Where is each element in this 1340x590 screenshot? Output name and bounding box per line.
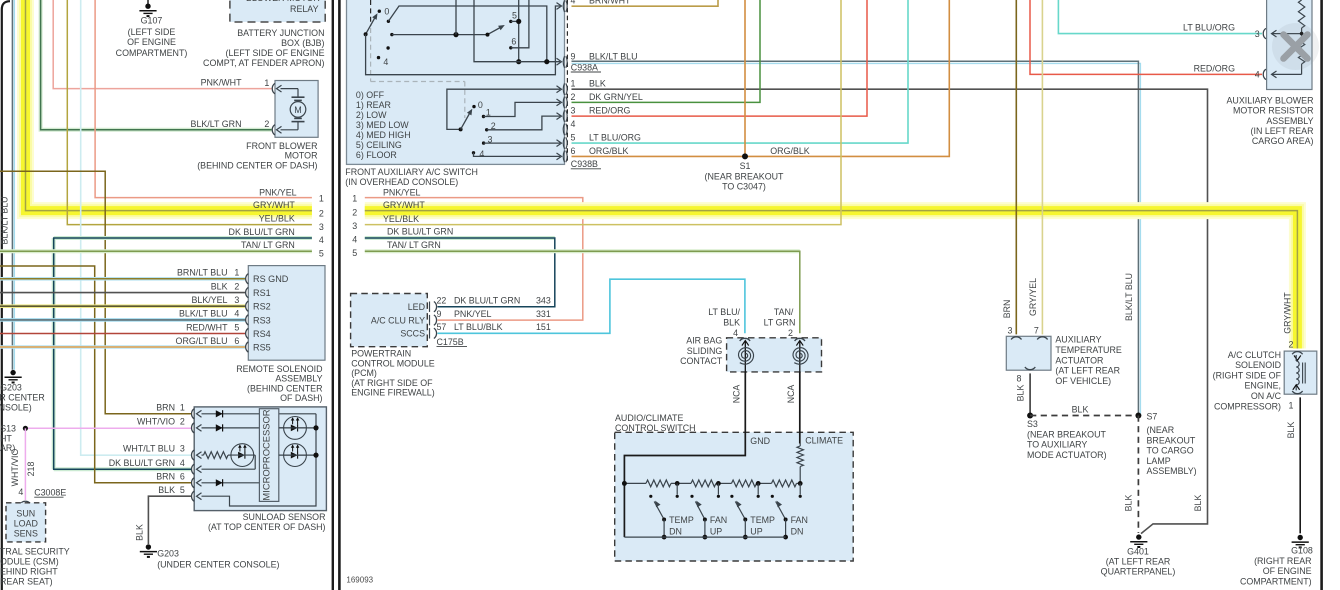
- position 5: [509, 20, 512, 23]
- svg-text:RED/ORG: RED/ORG: [1194, 63, 1236, 73]
- remote solenoid pin 6 ORG/LT BLU: [246, 342, 249, 352]
- svg-text:2: 2: [319, 208, 324, 218]
- svg-text:CONTROL SWITCH: CONTROL SWITCH: [615, 423, 696, 433]
- node S3: [1027, 413, 1033, 419]
- svg-text:BLK/LT GRN: BLK/LT GRN: [191, 119, 242, 129]
- microprocessor output row to LED lower: [279, 454, 316, 456]
- wire pos1 to pin 2: [484, 102, 561, 116]
- svg-text:343: 343: [536, 296, 551, 306]
- svg-text:UP: UP: [710, 527, 722, 537]
- lower switch arm: [459, 127, 463, 131]
- node S7: [1135, 413, 1141, 419]
- wire pos3 to pin 5: [484, 142, 560, 144]
- right page border: [338, 0, 341, 590]
- svg-text:4: 4: [352, 235, 357, 245]
- svg-text:SLIDING: SLIDING: [687, 346, 723, 356]
- svg-text:BATTERY JUNCTION: BATTERY JUNCTION: [237, 28, 324, 38]
- svg-text:3: 3: [319, 222, 324, 232]
- svg-text:RED/WHT: RED/WHT: [186, 322, 228, 332]
- svg-text:1) REAR: 1) REAR: [356, 100, 391, 110]
- svg-text:PNK/YEL: PNK/YEL: [454, 309, 492, 319]
- svg-text:4: 4: [479, 149, 484, 159]
- svg-text:BRN: BRN: [1002, 300, 1012, 319]
- line C to pin 9: [474, 0, 560, 62]
- svg-text:BLK: BLK: [1193, 495, 1203, 512]
- svg-text:(BEHIND CENTER OF DASH): (BEHIND CENTER OF DASH): [197, 161, 317, 171]
- wire LT BLU/BLK PCM to air bag sliding contact: [438, 279, 745, 333]
- svg-text:LAMP: LAMP: [1147, 456, 1171, 466]
- svg-text:OF VEHICLE): OF VEHICLE): [1055, 376, 1111, 386]
- svg-text:CONTROL MODULE: CONTROL MODULE: [351, 358, 435, 368]
- svg-text:G203: G203: [157, 548, 179, 558]
- switch S1a dashed guide: [370, 0, 372, 26]
- svg-text:FAN: FAN: [791, 515, 808, 525]
- svg-text:0) OFF: 0) OFF: [356, 90, 385, 100]
- wire BLK across to G401 drop: [572, 89, 1208, 533]
- connector pin 9 BLK/LT BLU: [563, 56, 564, 68]
- svg-text:CONTACT: CONTACT: [680, 356, 723, 366]
- svg-text:MOTOR RESISTOR: MOTOR RESISTOR: [1233, 106, 1314, 116]
- wire RED/WHT remote solenoid pin 5: [0, 333, 245, 335]
- wire ORG/BLK with node S1: [572, 0, 950, 156]
- remote solenoid pin 4 BLK/LT BLU: [246, 315, 249, 325]
- svg-text:BLK: BLK: [1124, 495, 1134, 512]
- svg-text:0: 0: [384, 7, 389, 17]
- svg-text:COMPARTMENT): COMPARTMENT): [116, 48, 188, 58]
- remote solenoid assembly box: [248, 266, 325, 361]
- node S13: [23, 426, 28, 431]
- svg-text:4: 4: [1255, 70, 1260, 80]
- svg-text:(UNDER CENTER: (UNDER CENTER: [0, 392, 45, 402]
- svg-text:1: 1: [352, 193, 357, 203]
- svg-text:TAN/ LT GRN: TAN/ LT GRN: [387, 240, 441, 250]
- aux temperature actuator box: [1006, 336, 1051, 370]
- svg-text:5: 5: [180, 485, 185, 495]
- wire RED/ORG (switch side): [572, 0, 868, 116]
- svg-text:COMPT, AT FENDER APRON): COMPT, AT FENDER APRON): [203, 58, 325, 68]
- sunload pin 1 BRN: [192, 409, 195, 419]
- svg-text:COMPARTMENT): COMPARTMENT): [1240, 576, 1312, 586]
- sunload pin 5 BLK: [192, 491, 195, 501]
- svg-text:C938B: C938B: [571, 159, 598, 169]
- switch FAN DN: [771, 495, 774, 498]
- svg-text:RS GND: RS GND: [253, 274, 289, 284]
- svg-text:4: 4: [234, 309, 239, 319]
- pin 2 TAN/LT GRN entry: [795, 338, 805, 341]
- lower switch: common to pin 1: [447, 89, 560, 129]
- svg-text:LED: LED: [408, 302, 425, 312]
- wire pos4 to pin 6: [474, 153, 561, 157]
- svg-text:7: 7: [1034, 325, 1039, 335]
- svg-text:CARGO AREA): CARGO AREA): [1252, 136, 1314, 146]
- svg-text:BLK/YEL: BLK/YEL: [191, 295, 227, 305]
- svg-text:2: 2: [234, 281, 239, 291]
- svg-text:169093: 169093: [346, 576, 373, 585]
- svg-text:BLK: BLK: [723, 317, 740, 327]
- front blower motor box: [275, 81, 318, 138]
- svg-text:OF DASH): OF DASH): [280, 393, 322, 403]
- svg-text:TO CARGO: TO CARGO: [1147, 446, 1194, 456]
- svg-text:(AT LEFT REAR: (AT LEFT REAR: [1106, 557, 1171, 567]
- svg-text:1: 1: [264, 78, 269, 88]
- sun load sensor (CSM) dashed box: [6, 503, 46, 542]
- svg-text:0: 0: [478, 100, 483, 110]
- svg-text:C175B: C175B: [437, 337, 464, 347]
- svg-text:BLK: BLK: [158, 485, 175, 495]
- svg-text:9: 9: [571, 51, 576, 61]
- svg-text:22: 22: [437, 296, 447, 306]
- svg-text:ENGINE FIREWALL): ENGINE FIREWALL): [351, 388, 435, 398]
- svg-text:3: 3: [234, 295, 239, 305]
- wire pos2 to pin 3: [487, 116, 560, 130]
- svg-text:TAN/ LT GRN: TAN/ LT GRN: [241, 240, 295, 250]
- svg-text:(LEFT SIDE OF ENGINE: (LEFT SIDE OF ENGINE: [226, 48, 325, 58]
- svg-text:S3: S3: [1027, 419, 1038, 429]
- svg-text:TAN/: TAN/: [774, 307, 794, 317]
- svg-text:ASSEMBLY: ASSEMBLY: [1266, 116, 1313, 126]
- svg-text:(RIGHT REAR: (RIGHT REAR: [1254, 556, 1312, 566]
- svg-text:SOLENOID: SOLENOID: [1235, 360, 1281, 370]
- svg-text:6: 6: [571, 146, 576, 156]
- svg-text:4: 4: [733, 328, 738, 338]
- svg-text:DK BLU/LT GRN: DK BLU/LT GRN: [109, 458, 175, 468]
- svg-text:2: 2: [1289, 340, 1294, 350]
- svg-text:(UNDER CENTER CONSOLE): (UNDER CENTER CONSOLE): [157, 559, 279, 569]
- svg-text:RS4: RS4: [253, 329, 271, 339]
- svg-text:57: 57: [437, 322, 447, 332]
- svg-text:TO AUXILIARY: TO AUXILIARY: [1027, 440, 1087, 450]
- svg-text:3: 3: [1008, 325, 1013, 335]
- svg-text:AUXILIARY BLOWER: AUXILIARY BLOWER: [1227, 95, 1314, 105]
- svg-text:MOTOR: MOTOR: [285, 151, 318, 161]
- svg-text:G203: G203: [0, 382, 22, 392]
- position 6: [509, 46, 512, 49]
- svg-text:1: 1: [1289, 400, 1294, 410]
- svg-text:PNK/WHT: PNK/WHT: [201, 78, 243, 88]
- svg-text:BOX (BJB): BOX (BJB): [281, 38, 324, 48]
- pin 4 LT BLU/BLK entry: [740, 338, 750, 341]
- resistor pin 4: [1272, 73, 1302, 75]
- wire PNK/WHT: [53, 0, 271, 89]
- wire BLK sunload pin 5 to G203: [148, 496, 191, 544]
- remote solenoid pin 3 BLK/YEL: [246, 301, 249, 311]
- svg-text:(NEAR: (NEAR: [1147, 425, 1175, 435]
- svg-text:S1: S1: [740, 161, 751, 171]
- svg-text:9: 9: [437, 309, 442, 319]
- sunload internal row 2 (diode to LED): [202, 427, 284, 429]
- connector pin 6 ORG/BLK: [563, 151, 564, 163]
- svg-text:(BEHIND CENTER: (BEHIND CENTER: [247, 383, 322, 393]
- svg-text:SENS: SENS: [14, 529, 38, 539]
- dashed BLK wire S7 to G401: [1137, 416, 1139, 534]
- svg-text:1: 1: [234, 268, 239, 278]
- svg-text:BLK: BLK: [1286, 422, 1296, 439]
- svg-text:WHT/LT BLU: WHT/LT BLU: [123, 444, 175, 454]
- remote solenoid pin 1 BRN/LT BLU: [246, 274, 249, 284]
- svg-text:BLOWER MOTOR: BLOWER MOTOR: [246, 0, 320, 3]
- wire GRY/WHT highlighted yellow: vertical then across both pages: [26, 0, 312, 211]
- svg-text:DK BLU/LT GRN: DK BLU/LT GRN: [387, 227, 453, 237]
- svg-text:BRN: BRN: [156, 471, 175, 481]
- svg-text:1: 1: [319, 194, 324, 204]
- svg-text:LT BLU/: LT BLU/: [708, 307, 740, 317]
- node S1: [742, 153, 748, 159]
- wire TAN/LT GRN left page: [0, 249, 312, 253]
- wire: line B position2 to second arm pivot: [392, 34, 488, 36]
- svg-text:ENGINE,: ENGINE,: [1245, 381, 1282, 391]
- wire: position1 to line A to junction on line C: [388, 6, 546, 62]
- svg-text:BRN: BRN: [156, 402, 175, 412]
- sliding contact coil 1: [744, 341, 746, 372]
- svg-text:OF ENGINE: OF ENGINE: [1263, 566, 1312, 576]
- wire DK GRN/YEL: [572, 0, 761, 102]
- svg-text:EHIND RIGHT: EHIND RIGHT: [0, 567, 58, 577]
- sunload sensor box: [194, 407, 326, 511]
- upper rotary switch arm: [366, 15, 377, 34]
- motor M symbol: [297, 89, 299, 98]
- svg-text:6: 6: [180, 471, 185, 481]
- powertrain control module (PCM) dashed box: [351, 294, 428, 347]
- ground G401: [1136, 534, 1141, 539]
- svg-text:M: M: [294, 105, 302, 115]
- svg-text:OF ENGINE: OF ENGINE: [127, 37, 176, 47]
- svg-text:RS5: RS5: [253, 342, 271, 352]
- svg-text:MICROPROCESSOR: MICROPROCESSOR: [261, 409, 272, 500]
- svg-text:TRAL SECURITY: TRAL SECURITY: [0, 546, 70, 556]
- svg-text:(RIGHT SIDE OF: (RIGHT SIDE OF: [1213, 370, 1282, 380]
- wire BLK/LT GRN vertical: [41, 0, 272, 130]
- remote solenoid pin 5 RED/WHT: [246, 328, 249, 338]
- svg-text:FRONT AUXILIARY A/C SWITCH: FRONT AUXILIARY A/C SWITCH: [345, 167, 478, 177]
- svg-text:1: 1: [180, 402, 185, 412]
- svg-text:SCCS: SCCS: [400, 329, 425, 339]
- svg-text:4) MED HIGH: 4) MED HIGH: [356, 130, 411, 140]
- svg-text:TEMP: TEMP: [669, 515, 694, 525]
- sunload internal row 3 (resistor + LED loop to pin 4): [202, 454, 204, 456]
- connector C938 face: [566, 0, 568, 164]
- svg-text:BLK: BLK: [211, 281, 228, 291]
- svg-text:2: 2: [352, 208, 357, 218]
- svg-text:BLK/LT BLU: BLK/LT BLU: [589, 51, 638, 61]
- switch FAN UP: [690, 495, 693, 498]
- svg-text:DK BLU/LT GRN: DK BLU/LT GRN: [454, 296, 520, 306]
- svg-text:(NEAR BREAKOUT: (NEAR BREAKOUT: [1027, 429, 1106, 439]
- microprocessor rect: [259, 409, 278, 502]
- svg-text:GRY/YEL: GRY/YEL: [1028, 278, 1038, 316]
- svg-text:FAN: FAN: [710, 515, 727, 525]
- bus junction dots: [622, 481, 627, 486]
- svg-text:DK GRN/YEL: DK GRN/YEL: [589, 92, 643, 102]
- ground G203 (under center console): [146, 544, 151, 549]
- svg-text:NCA: NCA: [731, 385, 741, 404]
- svg-text:4: 4: [571, 119, 576, 129]
- svg-text:LT BLU/ORG: LT BLU/ORG: [589, 133, 641, 143]
- svg-text:MODE ACTUATOR): MODE ACTUATOR): [1027, 450, 1107, 460]
- audio/climate control switch dashed box: [615, 432, 854, 561]
- ground G107: [147, 0, 149, 4]
- connector pin 5 LT BLU/ORG: [563, 137, 564, 149]
- pin 1 PNK/WHT: [272, 83, 275, 93]
- svg-text:2) LOW: 2) LOW: [356, 110, 387, 120]
- wire PNK/YEL left page: [95, 0, 312, 198]
- svg-text:2: 2: [264, 119, 269, 129]
- A/C clutch solenoid box: [1284, 351, 1317, 394]
- switch TEMP UP: [730, 495, 733, 498]
- svg-text:RS3: RS3: [253, 315, 271, 325]
- svg-text:REAR SEAT): REAR SEAT): [0, 577, 53, 587]
- wire BLK solenoid to G106: [1299, 397, 1301, 533]
- ground G106: [1298, 535, 1303, 540]
- svg-text:3: 3: [352, 221, 357, 231]
- wire WHT/VIO down to sun load sensor connector: [24, 428, 26, 500]
- svg-text:5: 5: [352, 248, 357, 258]
- svg-text:ODULE (CSM): ODULE (CSM): [0, 556, 59, 566]
- resistor element: [1298, 0, 1304, 28]
- svg-text:6: 6: [511, 36, 516, 46]
- svg-text:G401: G401: [1127, 546, 1149, 556]
- svg-text:BLK/LT BLU: BLK/LT BLU: [0, 196, 9, 244]
- svg-text:ACTUATOR: ACTUATOR: [1055, 355, 1103, 365]
- svg-text:NCA: NCA: [786, 385, 796, 404]
- svg-text:(LEFT SIDE: (LEFT SIDE: [128, 27, 176, 37]
- svg-text:5: 5: [319, 248, 324, 258]
- svg-text:FRONT BLOWER: FRONT BLOWER: [246, 141, 317, 151]
- svg-text:ORG/BLK: ORG/BLK: [589, 146, 629, 156]
- svg-text:DK BLU/LT GRN: DK BLU/LT GRN: [229, 227, 295, 237]
- wire BLK/YEL remote solenoid pin 3: [0, 304, 245, 308]
- svg-text:4: 4: [383, 57, 388, 67]
- wire BLK/LT BLU vertical (to G203): [11, 0, 13, 370]
- svg-text:PNK/YEL: PNK/YEL: [259, 187, 297, 197]
- sliding contact coil 2: [799, 341, 801, 372]
- svg-text:AUXILIARY: AUXILIARY: [1055, 335, 1101, 345]
- svg-text:TO C3047): TO C3047): [722, 182, 766, 192]
- actuator pin 8 + BLK to S3: [1025, 367, 1035, 370]
- svg-text:ASSEMBLY: ASSEMBLY: [275, 374, 322, 384]
- relay box (battery junction box, cut off): [230, 0, 325, 22]
- svg-text:RED/ORG: RED/ORG: [589, 106, 631, 116]
- svg-text:A/C CLUTCH: A/C CLUTCH: [1228, 350, 1281, 360]
- wire BRN to actuator pin 3: [1015, 0, 1017, 334]
- wire DK BLU/LT GRN left page (pin 4 to sunload pin 4): [52, 238, 56, 469]
- sunload pin 4 DK BLU/LT GRN: [192, 464, 195, 474]
- wire YEL/BLK left page: [67, 0, 312, 225]
- svg-text:BREAKOUT: BREAKOUT: [1147, 435, 1196, 445]
- svg-text:8: 8: [1017, 374, 1022, 384]
- sunload LED photodiode left: [231, 444, 254, 467]
- svg-text:LT BLU/BLK: LT BLU/BLK: [454, 322, 503, 332]
- svg-text:(IN LEFT REAR: (IN LEFT REAR: [1251, 126, 1314, 136]
- sunload pin 3 WHT/LT BLU: [192, 450, 195, 460]
- wire BRN/LT BLU remote solenoid pin 1: [0, 277, 245, 281]
- sunload pin 2 WHT/VIO: [192, 423, 195, 433]
- remote solenoid pin 2 BLK: [246, 287, 249, 297]
- second arm: [488, 26, 504, 35]
- svg-text:BLK: BLK: [135, 524, 145, 541]
- sunload internal row 5 (BLK return bus): [202, 414, 317, 506]
- tap stubs: [676, 483, 678, 494]
- air bag sliding contact dashed box: [727, 338, 822, 372]
- bottom bus: [624, 536, 785, 538]
- wire LT BLU/ORG to resistor pin 3: [1058, 0, 1262, 34]
- sunload pin 6 BRN: [192, 478, 195, 488]
- svg-text:6) FLOOR: 6) FLOOR: [356, 150, 397, 160]
- svg-text:ASSEMBLY): ASSEMBLY): [1147, 466, 1197, 476]
- svg-text:5) CEILING: 5) CEILING: [356, 140, 402, 150]
- wire BLK/LT BLU remote solenoid pin 4: [0, 318, 245, 322]
- svg-text:4: 4: [319, 235, 324, 245]
- wire LT BLU/ORG (switch side): [572, 0, 909, 143]
- svg-text:RS2: RS2: [253, 302, 271, 312]
- sunload internal row 6 (diode into microprocessor): [202, 482, 260, 484]
- svg-text:(AT LEFT REAR: (AT LEFT REAR: [1055, 366, 1120, 376]
- wire BLK remote solenoid pin 2: [0, 292, 245, 294]
- svg-text:ON A/C: ON A/C: [1251, 391, 1282, 401]
- svg-text:CONSOLE): CONSOLE): [0, 403, 32, 413]
- svg-text:BLK/LT BLU: BLK/LT BLU: [179, 309, 228, 319]
- svg-text:2: 2: [571, 92, 576, 102]
- svg-text:DN: DN: [791, 527, 804, 537]
- svg-text:3: 3: [1255, 29, 1260, 39]
- pin 2 BLK/LT GRN: [272, 125, 275, 135]
- svg-text:YEL/BLK: YEL/BLK: [259, 213, 295, 223]
- svg-text:ORG/BLK: ORG/BLK: [770, 146, 810, 156]
- svg-text:QUARTERPANEL): QUARTERPANEL): [1101, 567, 1176, 577]
- svg-text:A/C CLU RLY: A/C CLU RLY: [371, 316, 425, 326]
- svg-text:GRY/WHT: GRY/WHT: [1282, 292, 1292, 334]
- connector pin 4 BRN/WHT: [563, 0, 564, 12]
- svg-text:ORG/LT BLU: ORG/LT BLU: [176, 336, 228, 346]
- dashed BLK wire S3 to S7: [1030, 415, 1138, 417]
- junction dots on right bus: [313, 425, 318, 430]
- svg-text:GRY/WHT: GRY/WHT: [253, 200, 295, 210]
- solenoid coil: [1296, 361, 1299, 385]
- svg-text:RS1: RS1: [253, 288, 271, 298]
- svg-text:DN: DN: [669, 527, 682, 537]
- wire BRN/WHT: [572, 0, 719, 6]
- svg-text:LOAD: LOAD: [14, 518, 38, 528]
- climate resistor: [797, 446, 803, 467]
- pin 2 GRY/WHT highlighted across page: [365, 211, 1298, 349]
- svg-text:SUNLOAD SENSOR: SUNLOAD SENSOR: [243, 512, 326, 522]
- svg-text:RELAY: RELAY: [290, 4, 319, 14]
- svg-text:YEL/BLK: YEL/BLK: [383, 214, 419, 224]
- svg-text:UP: UP: [750, 527, 762, 537]
- svg-text:S7: S7: [1147, 411, 1158, 421]
- vertical through 5 down to line C: [518, 0, 520, 62]
- wire WHT/VIO from S13 to sunload pin 2: [25, 427, 191, 429]
- svg-text:GRY/WHT: GRY/WHT: [383, 200, 425, 210]
- svg-text:TEMP: TEMP: [750, 515, 775, 525]
- svg-text:AUDIO/CLIMATE: AUDIO/CLIMATE: [615, 413, 683, 423]
- sunload internal row 1 (diode to bus): [202, 413, 317, 415]
- svg-text:LT GRN: LT GRN: [764, 317, 796, 327]
- junction + vertical to top: [453, 32, 458, 37]
- wire ORG/LT BLU remote solenoid pin 6: [0, 345, 245, 349]
- svg-text:3) MED LOW: 3) MED LOW: [356, 120, 409, 130]
- svg-text:WHT/VIO: WHT/VIO: [137, 417, 175, 427]
- svg-text:3: 3: [180, 444, 185, 454]
- svg-text:AIR BAG: AIR BAG: [686, 336, 722, 346]
- svg-text:(AT TOP CENTER OF DASH): (AT TOP CENTER OF DASH): [208, 522, 326, 532]
- connector pin 4: [563, 124, 564, 136]
- svg-text:5: 5: [512, 10, 517, 20]
- connector pin 3 RED/ORG: [563, 110, 564, 122]
- svg-text:SUN: SUN: [16, 508, 35, 518]
- svg-text:G107: G107: [141, 16, 163, 26]
- svg-text:REMOTE SOLENOID: REMOTE SOLENOID: [236, 364, 322, 374]
- svg-text:LT BLU/ORG: LT BLU/ORG: [1183, 23, 1235, 33]
